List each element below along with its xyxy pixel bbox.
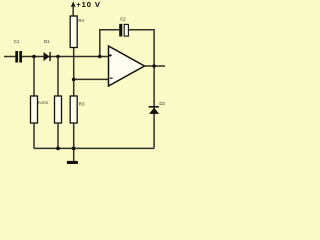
op-amp U1 bbox=[109, 46, 145, 86]
op-amp plus marker bbox=[109, 54, 112, 57]
op-amp minus marker bbox=[110, 77, 113, 79]
ground bbox=[67, 161, 78, 164]
node bottom colB junction bbox=[56, 147, 60, 151]
diode D1 bbox=[44, 52, 51, 61]
resistor R1R2 bbox=[31, 96, 38, 123]
resistor R3 bbox=[70, 96, 77, 123]
svg-text:R3: R3 bbox=[79, 101, 85, 106]
resistor R2 middle bbox=[55, 96, 62, 123]
wire ground stub bbox=[73, 148, 75, 161]
wire feedback left vertical bbox=[100, 30, 119, 57]
svg-text:D2: D2 bbox=[159, 101, 165, 106]
node A main/colA junction bbox=[32, 55, 36, 59]
supply arrow +10V bbox=[71, 2, 76, 7]
diode D2 bbox=[149, 106, 160, 114]
wire bottom rail bbox=[34, 147, 154, 149]
capacitor C1 bbox=[15, 51, 22, 63]
node bottom colC junction bbox=[72, 147, 76, 151]
node B main/colB junction bbox=[56, 55, 60, 59]
svg-text:C2: C2 bbox=[120, 16, 126, 21]
svg-text:R4: R4 bbox=[78, 18, 84, 23]
svg-text:C1: C1 bbox=[14, 39, 20, 44]
svg-text:+10 V: +10 V bbox=[76, 0, 101, 9]
resistor R4 top bbox=[70, 16, 77, 48]
node inverting input junction bbox=[72, 78, 76, 82]
wire main horizontal to op-amp bbox=[22, 56, 109, 58]
svg-text:R1R2: R1R2 bbox=[38, 100, 49, 105]
node output junction bbox=[152, 64, 156, 68]
wire column B vertical bbox=[57, 57, 59, 149]
wire column A vertical bbox=[33, 57, 35, 149]
wire feedback right bbox=[128, 30, 154, 149]
wire output bbox=[145, 65, 166, 67]
wire inverting input bbox=[74, 78, 109, 80]
wire input to C1 bbox=[4, 56, 15, 58]
wire column C vertical bbox=[72, 7, 75, 149]
capacitor C2 bbox=[119, 24, 122, 37]
node feedback junction bbox=[98, 55, 102, 59]
svg-text:D1: D1 bbox=[44, 39, 50, 44]
